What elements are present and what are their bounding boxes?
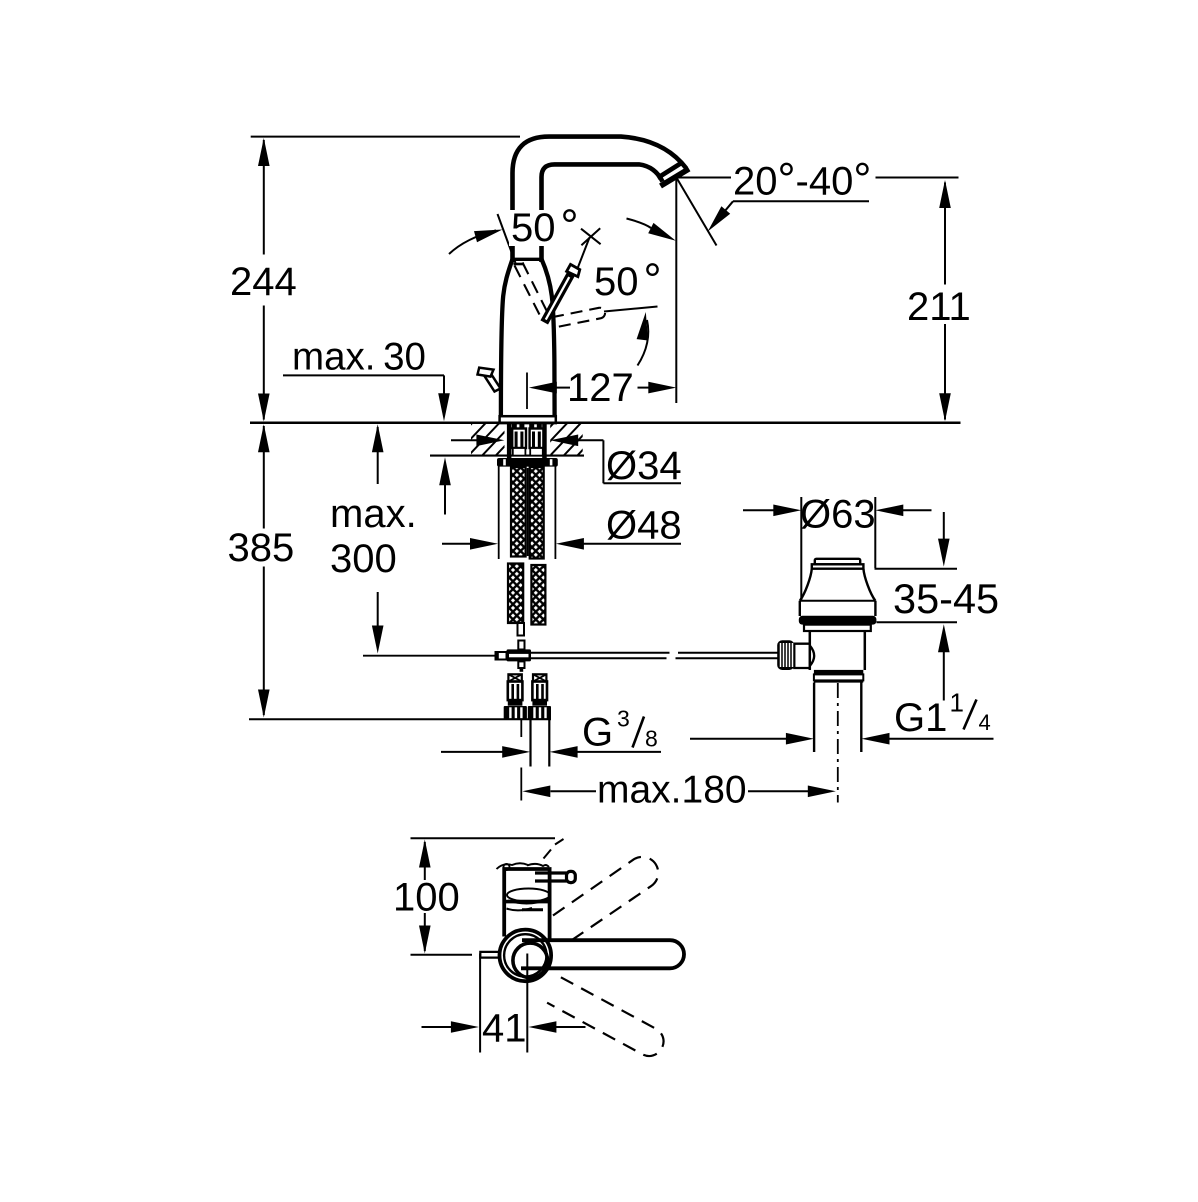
- label 50 deg 1: [509, 200, 580, 251]
- svg-text:Ø63: Ø63: [800, 493, 876, 537]
- tv ext bottom: [411, 954, 473, 956]
- handle lever: [543, 264, 580, 322]
- dim dia63: [743, 493, 932, 601]
- counter bottom line: [430, 455, 584, 457]
- swivel arc left: [449, 230, 503, 255]
- tv thick band: [504, 900, 549, 904]
- shank walls: [507, 423, 547, 458]
- drain bell: [800, 569, 876, 616]
- tv spout: [513, 940, 684, 978]
- ext line top: [251, 136, 520, 138]
- tv tab: [480, 952, 500, 958]
- faucet body: [501, 259, 555, 417]
- ext gasket bottom: [877, 621, 958, 623]
- G38 tail tube: [521, 720, 549, 801]
- label 20-40: [677, 154, 959, 246]
- svg-text:300: 300: [330, 537, 397, 581]
- lever axis line: [604, 307, 658, 312]
- counter hatching: [440, 421, 651, 457]
- ext plug top: [875, 568, 958, 570]
- svg-text:1: 1: [950, 688, 964, 718]
- tv ext top: [411, 837, 556, 839]
- dim max300: [330, 424, 417, 653]
- dim 127: [529, 366, 677, 410]
- braided hose lower left: [508, 564, 523, 624]
- braided hose lower right: [531, 565, 545, 625]
- handle leader cross: [578, 228, 601, 268]
- svg-text:Ø48: Ø48: [606, 504, 682, 548]
- tv dashed lever down: [547, 977, 663, 1056]
- check valve right: [528, 674, 551, 719]
- tv body: [504, 869, 549, 941]
- ext line 385 bottom: [249, 718, 551, 720]
- drain side port: [794, 644, 814, 668]
- drain body: [810, 631, 865, 670]
- svg-text:G1: G1: [894, 696, 947, 740]
- svg-text:244: 244: [230, 260, 297, 304]
- dim G38: [441, 706, 661, 758]
- spout: [513, 137, 690, 262]
- tail centerline: [837, 683, 839, 803]
- tv scribbles2: [507, 908, 544, 910]
- drain gasket: [799, 616, 877, 625]
- axis centerline: [526, 373, 528, 410]
- dim dia34: [451, 435, 682, 489]
- swivel line: [498, 214, 516, 263]
- hose fitting left: [512, 423, 526, 455]
- base plate: [500, 416, 556, 423]
- svg-text:max.: max.: [330, 492, 417, 536]
- drain tailpipe: [814, 683, 861, 753]
- locknut: [497, 458, 558, 467]
- svg-text:3: 3: [617, 706, 630, 732]
- tee fitting: [495, 649, 531, 671]
- svg-text:50°: 50°: [511, 200, 579, 251]
- tv lever: [535, 871, 575, 882]
- tv dome: [507, 889, 550, 904]
- hose seam: [527, 468, 529, 556]
- svg-text:8: 8: [645, 726, 658, 752]
- svg-text:max.180: max.180: [597, 769, 747, 812]
- tv cap scribbles: [497, 839, 564, 870]
- swivel arc right: [627, 219, 676, 241]
- braided hose upper right: [530, 467, 544, 559]
- plug cap: [812, 559, 864, 569]
- gasket lip: [804, 625, 871, 631]
- tv dashed lever up: [553, 857, 658, 939]
- drain union nut: [814, 670, 863, 682]
- knurled knob: [777, 640, 794, 670]
- svg-text:41: 41: [482, 1007, 527, 1051]
- dim max30: [283, 336, 451, 515]
- dia48 extension lines: [499, 467, 556, 560]
- dim 41: [422, 954, 586, 1053]
- svg-text:211: 211: [907, 285, 971, 329]
- dim 244: [230, 138, 297, 422]
- check valve left: [504, 674, 527, 719]
- label 50 deg 2: [594, 254, 662, 305]
- dim 385: [228, 424, 295, 717]
- svg-text:20°-40°: 20°-40°: [733, 154, 871, 205]
- ext line outlet: [675, 178, 677, 404]
- tv escutcheon circles: [500, 930, 552, 982]
- dim max180: [522, 769, 836, 812]
- dim 100: [393, 840, 460, 954]
- hose fitting right: [529, 423, 543, 455]
- svg-text:50°: 50°: [594, 254, 662, 305]
- svg-text:Ø34: Ø34: [606, 444, 682, 488]
- svg-text:385: 385: [228, 526, 295, 570]
- cartridge dashed lines: [515, 263, 547, 321]
- pull rod: [363, 653, 780, 658]
- pull-rod knob: [478, 368, 501, 392]
- dashed lever open: [552, 308, 605, 328]
- svg-text:100: 100: [393, 876, 460, 920]
- svg-text:max. 30: max. 30: [292, 336, 426, 379]
- handle 50 arc arrow: [637, 312, 649, 366]
- dim G114: [690, 688, 994, 745]
- counter top line: [250, 422, 961, 425]
- dim dia48: [442, 504, 682, 550]
- connector tubes: [518, 623, 525, 650]
- dim 35-45: [893, 512, 999, 701]
- svg-text:4: 4: [979, 710, 991, 735]
- braided hose upper left: [511, 467, 526, 557]
- svg-text:G: G: [582, 711, 613, 755]
- svg-text:127: 127: [567, 366, 634, 410]
- dim 211: [907, 180, 971, 421]
- svg-text:35-45: 35-45: [893, 575, 999, 622]
